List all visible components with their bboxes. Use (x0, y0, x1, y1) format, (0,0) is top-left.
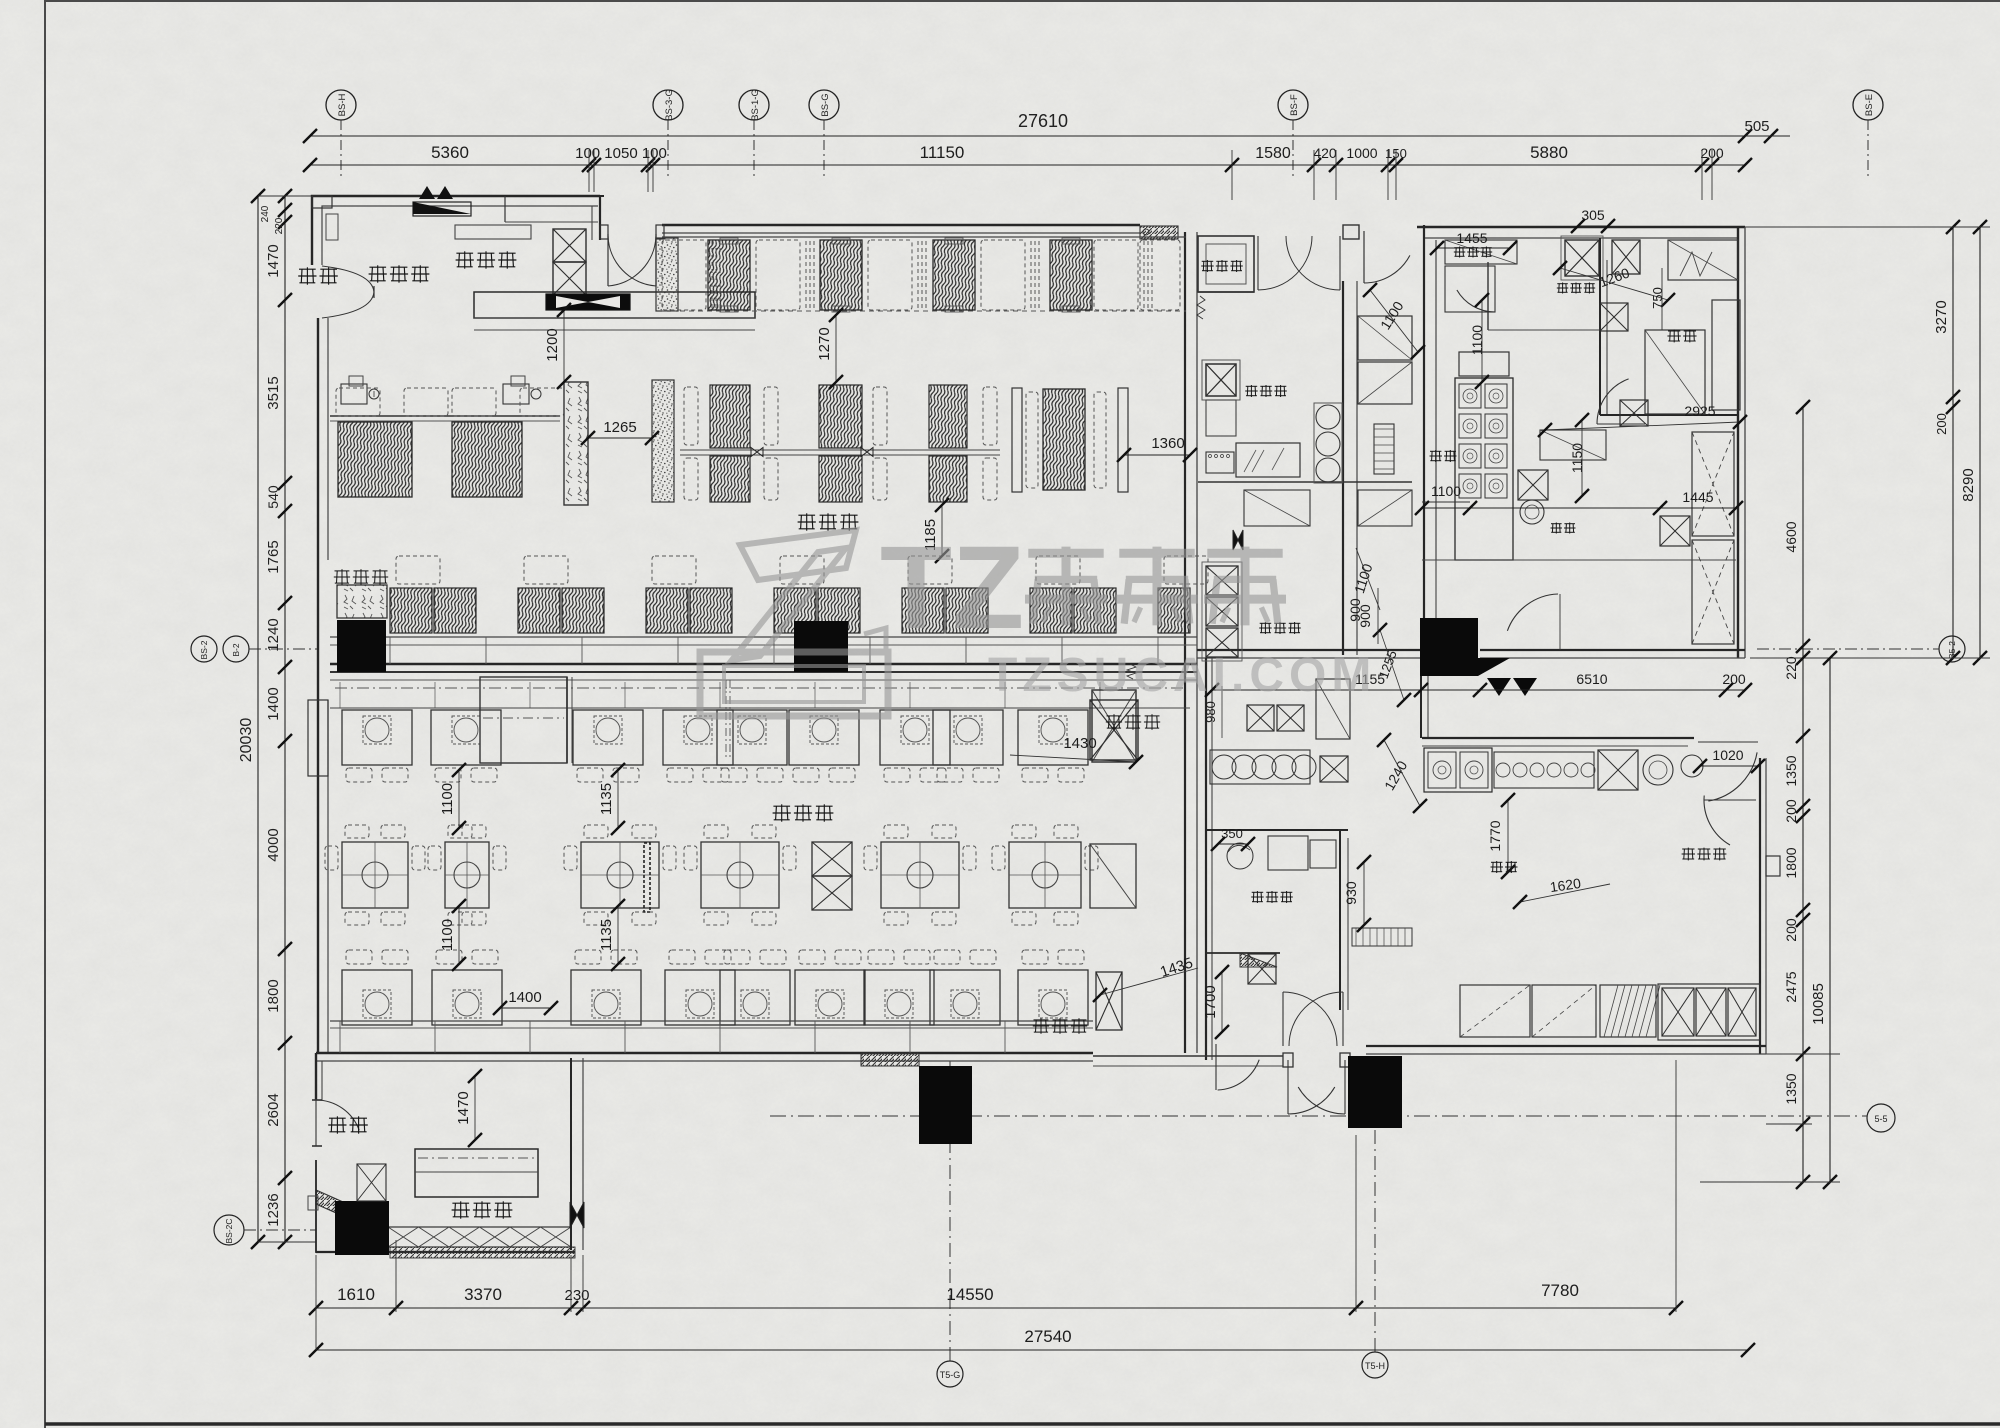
svg-text:5360: 5360 (431, 143, 469, 162)
cashier column xbox (553, 229, 586, 262)
svg-text:1610: 1610 (337, 1285, 375, 1304)
wall vertical right of cashier zone (570, 1058, 572, 1250)
table row1 x608 (573, 710, 643, 765)
booth seat dashed cell band1 (981, 240, 1025, 310)
label jia gong qu (1682, 848, 1694, 850)
svg-text:750: 750 (1650, 287, 1665, 309)
double door corridor 1258-1340 (1257, 236, 1259, 290)
svg-text:1800: 1800 (1783, 847, 1799, 878)
svg-text:B-2: B-2 (231, 643, 241, 657)
kitchen pass window xbox (chuan cai kou) (1206, 364, 1236, 396)
wall vertical 1421 kitchen-south to processing (1420, 658, 1422, 738)
svg-text:5-5: 5-5 (1874, 1114, 1887, 1124)
burner circles row processing (1494, 752, 1594, 788)
label shou yin tai (bottom) (452, 1202, 469, 1204)
svg-text:420: 420 (1313, 145, 1337, 161)
svg-text:BS-G: BS-G (820, 93, 831, 116)
xbox near water bar lower (1620, 400, 1648, 426)
svg-text:1580: 1580 (1255, 145, 1291, 162)
bottom-left hatched wedge wall (316, 1190, 388, 1236)
svg-text:1020: 1020 (1712, 747, 1743, 763)
xcell cabinet row1 right (1090, 700, 1138, 760)
table row2 x740 (701, 842, 779, 908)
xcell row2 right (1090, 844, 1136, 908)
datum bubble T5-G bottom (937, 1361, 963, 1387)
wall bottom dining south (316, 1052, 1093, 1054)
entrance door arcs top-left (322, 266, 374, 292)
table row1 x698 (663, 710, 733, 765)
svg-text:4600: 4600 (1783, 521, 1799, 552)
column black C4 (x920) (919, 1066, 972, 1144)
table row3 x606 (571, 970, 641, 1025)
svg-text:1265: 1265 (603, 419, 636, 436)
bench back heavy wall mid dining (330, 663, 1197, 666)
svg-text:7780: 7780 (1541, 1281, 1579, 1300)
stair hatch strip bbq (1352, 928, 1412, 946)
kitchen counter line lower (1422, 559, 1736, 561)
wall left below entrance (317, 318, 319, 560)
svg-text:1100: 1100 (439, 919, 456, 951)
kitchen small stove (1206, 452, 1234, 473)
dimension chain top second line (310, 164, 1745, 166)
north arrows (two solid triangles) (419, 186, 435, 199)
band3 bench rails (330, 636, 1197, 638)
label qing jie jian (1202, 260, 1214, 262)
black bowtie kitchen corridor (1233, 530, 1243, 550)
svg-text:930: 930 (1343, 881, 1359, 905)
table row1 x377 (342, 710, 412, 765)
cashier counter bottom (415, 1149, 538, 1197)
svg-text:2475: 2475 (1783, 971, 1799, 1002)
svg-text:BS-2: BS-2 (199, 640, 209, 659)
booth seat dashed band2 upper (983, 387, 997, 445)
dimension 20030 left overall (257, 196, 259, 1242)
table row2 x375 (342, 842, 408, 908)
wall top-left inner line (322, 206, 598, 242)
datum bubble BS-1-G (739, 90, 769, 120)
door arc processing area top right (1708, 752, 1757, 801)
booth seat dashed band2 upper (873, 387, 887, 445)
dimension 1155 6510 200 line (1212, 689, 1745, 691)
watermark fake glyph su (1028, 549, 1103, 558)
svg-text:1400: 1400 (265, 687, 282, 720)
datum bubble T5-H bottom (1362, 1352, 1388, 1378)
booth seat dashed cell band1 (756, 240, 800, 310)
bottom wall under cashier (316, 1251, 575, 1253)
label yong can qu (upper) (798, 514, 815, 516)
svg-text:27540: 27540 (1024, 1327, 1071, 1346)
svg-text:1700: 1700 (1202, 985, 1219, 1018)
label chuan cai kou (1246, 385, 1258, 387)
kitchen ladder shaft (1374, 424, 1394, 474)
table row1 x915 (880, 710, 950, 765)
svg-text:1800: 1800 (265, 979, 282, 1012)
xbox water bar shaft (1600, 303, 1628, 331)
table row1 x466 (431, 710, 501, 765)
kitchen door arc south (1507, 594, 1558, 631)
hatch strip below cashier band (390, 1247, 575, 1258)
svg-text:1765: 1765 (265, 540, 282, 573)
pot circles processing (1643, 755, 1673, 785)
cashier black glazing strip (546, 294, 630, 310)
processing area right notch (1766, 856, 1780, 876)
table row2 x1045 (1009, 842, 1081, 908)
svg-text:14550: 14550 (946, 1285, 993, 1304)
door arcs bottom dining right exit (1283, 1053, 1293, 1067)
lamp bowtie band2 b (861, 448, 873, 457)
datum bubble BS-H (326, 90, 356, 120)
xbox column corridor (wash area shafts) (1206, 566, 1238, 595)
svg-text:4000: 4000 (265, 828, 282, 861)
svg-text:3370: 3370 (464, 1285, 502, 1304)
table row3 x965 (930, 970, 1000, 1025)
wall-mounted unit A with circle (341, 384, 367, 404)
label re zao lower (1491, 861, 1502, 863)
xbox top wall B (1612, 240, 1640, 274)
booth table T1-4 (wavy hatch) (1050, 240, 1092, 310)
dimension 1400 bottom rows (500, 1007, 551, 1009)
door arc water bar (1597, 379, 1629, 424)
label re zao upper (1430, 450, 1441, 452)
door arcs bbq room bottom (1218, 1060, 1260, 1090)
grid line T5-H vertical (1374, 1130, 1376, 1352)
svg-text:27610: 27610 (1018, 111, 1068, 131)
label bei can gui (right) (1107, 715, 1122, 717)
cabinet with zigzag (top right) (1668, 240, 1738, 280)
wall left dining (317, 560, 319, 1053)
table row2 x620 (581, 842, 659, 908)
table row1 x968 (933, 710, 1003, 765)
svg-text:3270: 3270 (1933, 300, 1950, 333)
table row2 x920 (881, 842, 959, 908)
svg-text:505: 505 (1744, 118, 1769, 135)
svg-text:1100: 1100 (1431, 483, 1461, 499)
svg-text:980: 980 (1203, 701, 1218, 723)
cashier counter (474, 292, 755, 318)
svg-text:540: 540 (265, 485, 281, 509)
datum bubble BS-F (1278, 90, 1308, 120)
svg-text:1135: 1135 (598, 919, 615, 951)
table row1 x752 (717, 710, 787, 765)
xbox strip bottom-left wall (357, 1164, 386, 1201)
dimension 1470 bottom left (474, 1076, 476, 1140)
svg-text:TZSUCAI.COM: TZSUCAI.COM (988, 649, 1376, 702)
booth band 1 top bench rail (662, 236, 1186, 238)
svg-text:TZ: TZ (880, 522, 1024, 654)
service cabinet xcell right of band3 (1092, 690, 1136, 762)
bottom-left corridor left wall (315, 1053, 317, 1100)
wall kitchen east (1737, 227, 1739, 658)
label xing xiang qiang (369, 266, 386, 268)
zigzag wall break near cleaning room (1197, 296, 1205, 319)
svg-text:1350: 1350 (1783, 1073, 1799, 1104)
kitchen island rect (1540, 430, 1606, 460)
svg-text:BS-H: BS-H (337, 94, 348, 117)
black bowtie glazing on cashier wall (570, 1202, 584, 1228)
walls processing area (lower kitchen) (1205, 658, 1207, 1060)
booth seat dashed band2 lower (983, 458, 997, 500)
column black C6 bottom-left (335, 1201, 389, 1255)
wall kitchen top (1417, 226, 1745, 228)
svg-text:BS-2C: BS-2C (224, 1218, 234, 1243)
top wall closet row (1445, 240, 1517, 264)
wall top-left entry block outer (312, 196, 600, 242)
sheet border top (45, 0, 2000, 2)
band2 divider rail (680, 449, 1000, 451)
partition wall liangcai-shuiba vertical (1599, 238, 1601, 415)
booth seat dashed cell band1 right end (1140, 240, 1180, 310)
booth seat dashed cell band1 (662, 240, 706, 310)
table row3 x1053 (1018, 970, 1088, 1025)
svg-text:1000: 1000 (1346, 145, 1377, 161)
watermark group (700, 522, 1376, 716)
xbox right lower (1660, 516, 1690, 546)
label shou yin tai (top) (456, 252, 473, 254)
label bei can gui (left) (335, 570, 350, 572)
booth seat dashed cell band1 (868, 240, 912, 310)
corridor door arcs kitchen entry (1343, 225, 1359, 239)
sink circles row wash room (1210, 750, 1310, 784)
wall pilaster left dining (308, 700, 328, 776)
svg-text:1770: 1770 (1487, 820, 1503, 851)
grid line T5-G vertical (949, 1058, 951, 1361)
watermark logo set-square (740, 530, 856, 580)
svg-text:1270: 1270 (816, 327, 833, 360)
label hou chu (1551, 523, 1562, 525)
band2 left booth table A (338, 422, 412, 497)
svg-text:10085: 10085 (1810, 983, 1827, 1025)
sand pillar band2 (652, 380, 674, 502)
watermark fake glyph cai (1119, 549, 1194, 558)
booth seat dashed band2 lower (684, 458, 698, 500)
svg-text:BS-E: BS-E (1864, 94, 1875, 116)
dimension 10085 right overall lower (1829, 658, 1831, 1182)
kitchen prep tables below counter (1244, 490, 1310, 526)
black column kitchen (C3) with wedge (1420, 618, 1478, 676)
svg-text:1350: 1350 (1783, 755, 1799, 786)
extension lines left (258, 195, 312, 197)
dimension 8290 right overall (1979, 227, 1981, 658)
booth table T1-3 (wavy hatch) (933, 240, 975, 310)
booth seat dashed band2 lower (873, 458, 887, 500)
label geng yi men (1454, 247, 1465, 249)
datum bubble 5-5 right (1867, 1104, 1895, 1132)
band2 bay rails (1012, 388, 1022, 492)
band3 lower bench rails (330, 679, 1197, 681)
double door entry top (600, 195, 604, 197)
svg-text:3515: 3515 (265, 376, 282, 409)
marble pillar (564, 382, 588, 505)
bench band bottom dining (330, 1020, 1093, 1022)
water bar counter right (1712, 300, 1740, 410)
datum bubble B5-2 right mid (1939, 636, 1965, 662)
xcells processing bottom (1662, 988, 1694, 1036)
kitchen shaft cabinets (1358, 316, 1412, 360)
xbox pair wash room (1247, 705, 1274, 731)
crosshatch band bottom cashier (388, 1227, 571, 1247)
grid line left mid (249, 648, 318, 650)
prep tables processing bottom (1460, 985, 1530, 1037)
kitchen cabinet below pass (1206, 400, 1236, 436)
dimension 27540 bottom overall (316, 1349, 1748, 1351)
svg-text:1445: 1445 (1682, 489, 1713, 505)
booth table T2-1 lower (710, 456, 750, 502)
fridge bank dashed right (1692, 432, 1734, 536)
booth table T1-1 (wavy hatch) (708, 240, 750, 310)
booth seat dashed band2 lower (764, 458, 778, 500)
dimension 27610 overall top (310, 135, 1745, 137)
dimension chain left inner (284, 196, 286, 1242)
hatched band bottom wall (861, 1053, 919, 1066)
svg-text:220: 220 (1783, 656, 1799, 680)
sheet border bottom (45, 1422, 2000, 1425)
door arc processing right (1704, 796, 1730, 846)
svg-text:2925: 2925 (1684, 403, 1715, 419)
sheet border left (44, 0, 46, 1428)
watermark fake glyph wang (1207, 549, 1282, 558)
booth table T1-2 (wavy hatch) (820, 240, 862, 310)
booth seat dashed cell band1 (1094, 240, 1138, 310)
tall cabinet corridor wash (1316, 679, 1350, 739)
band2 left booth table B (452, 422, 522, 497)
svg-text:240: 240 (260, 205, 271, 222)
svg-text:1470: 1470 (455, 1091, 472, 1124)
band2 bay table (wavy) (1043, 389, 1085, 490)
dimension chain right upper (1952, 227, 1954, 658)
svg-text:6510: 6510 (1576, 671, 1607, 687)
svg-text:20030: 20030 (238, 718, 255, 763)
kitchen sink circles column (1316, 405, 1340, 429)
svg-text:5880: 5880 (1530, 143, 1568, 162)
cashier counter upper shelf (455, 225, 531, 239)
bbq room bottom wall (1206, 952, 1280, 954)
svg-text:BS-1-G: BS-1-G (750, 89, 761, 121)
booth table T2-3 lower (929, 456, 967, 502)
extension lines right upper (1745, 226, 1990, 228)
svg-text:200: 200 (1783, 918, 1799, 942)
label ru kou (bottom) (329, 1117, 346, 1119)
label bei can gui (bottom) (1034, 1019, 1049, 1021)
svg-text:BS-3-G: BS-3-G (664, 89, 675, 121)
svg-text:T5-H: T5-H (1365, 1361, 1385, 1371)
column black C2 middle (794, 621, 848, 672)
column black C5 (x1348) (1348, 1056, 1402, 1128)
svg-text:1400: 1400 (508, 989, 541, 1006)
liangcai room inner wall (1487, 262, 1489, 330)
datum bubble left mid B (223, 636, 249, 662)
grid line 5-5 horizontal (770, 1115, 1867, 1117)
wall lines bottom extending right (1093, 1055, 1283, 1057)
extension lines bottom (315, 1255, 317, 1350)
svg-text:8290: 8290 (1960, 468, 1977, 501)
dimension 1265 band2 (588, 437, 652, 439)
walls bbq room (1206, 829, 1348, 831)
bottom entrance door arc (316, 1100, 359, 1130)
svg-text:1100: 1100 (439, 783, 456, 815)
wall right end of top dining (1184, 232, 1186, 1053)
partition wall shuiba bottom (1600, 414, 1738, 416)
wall kitchen corridor west (1342, 281, 1344, 655)
xpair service row2 (812, 842, 852, 876)
svg-text:220: 220 (274, 217, 285, 234)
table row1 x1053 (1018, 710, 1088, 765)
wall step top-left (504, 196, 506, 222)
label shao kao jian (1252, 891, 1264, 893)
label shui ba (1668, 330, 1680, 332)
dimension chain bottom first (316, 1307, 1676, 1309)
wall top-left sill detail (312, 196, 332, 208)
table row3 x467 (432, 970, 502, 1025)
svg-text:230: 230 (564, 1287, 589, 1304)
table row3 x377 (342, 970, 412, 1025)
xbox bbq lower (1248, 954, 1276, 984)
kitchen pot and xbox right of stove (1518, 470, 1548, 500)
table row3 x830 (795, 970, 865, 1025)
table row1 x824 (789, 710, 859, 765)
table row3 x755 (720, 970, 790, 1025)
stoves processing row (1424, 748, 1492, 792)
svg-text:2604: 2604 (265, 1093, 282, 1126)
table row3 x700 (665, 970, 735, 1025)
logo wall wedge (filled triangle block) (413, 202, 471, 216)
label xi xiao jian (1260, 622, 1272, 624)
booth table T2-2 upper (819, 385, 862, 448)
zigzag break in bench back (1127, 664, 1136, 679)
stone cell (bei can gui top) (337, 585, 387, 618)
band2 bay dashed seats (1026, 392, 1038, 488)
bbq equipment (1268, 836, 1308, 870)
datum bubble BS-3-G (653, 90, 683, 120)
datum bubble BS-G (809, 90, 839, 120)
wall-mounted unit B with circle (503, 384, 529, 404)
lamp bowtie band2 a (751, 448, 763, 457)
kitchen mirror glass (1236, 443, 1300, 477)
wall kitchen corridor mid (1423, 225, 1425, 618)
svg-text:T5-G: T5-G (940, 1370, 961, 1380)
band3 upper dashed seats (396, 556, 440, 584)
sand pillar band1 left (656, 238, 678, 311)
svg-text:900: 900 (1357, 604, 1373, 628)
entrance door left wall upper (311, 242, 313, 265)
svg-text:1135: 1135 (598, 783, 615, 815)
ladder hatch box processing (1600, 985, 1660, 1037)
svg-text:200: 200 (1722, 671, 1746, 687)
booth table T2-1 upper (710, 385, 750, 448)
dimension 1360 band2 right (1124, 454, 1190, 456)
svg-text:1360: 1360 (1151, 435, 1184, 452)
xbox processing row (1598, 750, 1638, 790)
svg-text:200: 200 (1934, 413, 1949, 435)
screen strip row2 (644, 843, 650, 912)
service station rect row1 (480, 677, 567, 763)
dimension chain right inner kitchen (1802, 407, 1804, 1182)
booth seat dashed band2 upper (764, 387, 778, 445)
datum bubble BS-E (1853, 90, 1883, 120)
xcell row3 right (1096, 972, 1122, 1030)
svg-text:1430: 1430 (1063, 735, 1096, 752)
svg-text:200: 200 (1783, 799, 1799, 823)
grid line right mid (1757, 648, 1939, 650)
table row3 x899 (864, 970, 934, 1025)
room cleaning walls (qing jie jian) (1198, 236, 1254, 292)
svg-text:1470: 1470 (265, 244, 282, 277)
booth table T2-2 lower (819, 456, 862, 502)
booth seat dashed band2 upper (684, 387, 698, 445)
inner door arcs corridor south (1282, 992, 1284, 1046)
kitchen stove bank (hot range) (1455, 352, 1513, 560)
table row2 x467 (445, 842, 489, 908)
label ru kou (entrance top) (299, 268, 316, 270)
